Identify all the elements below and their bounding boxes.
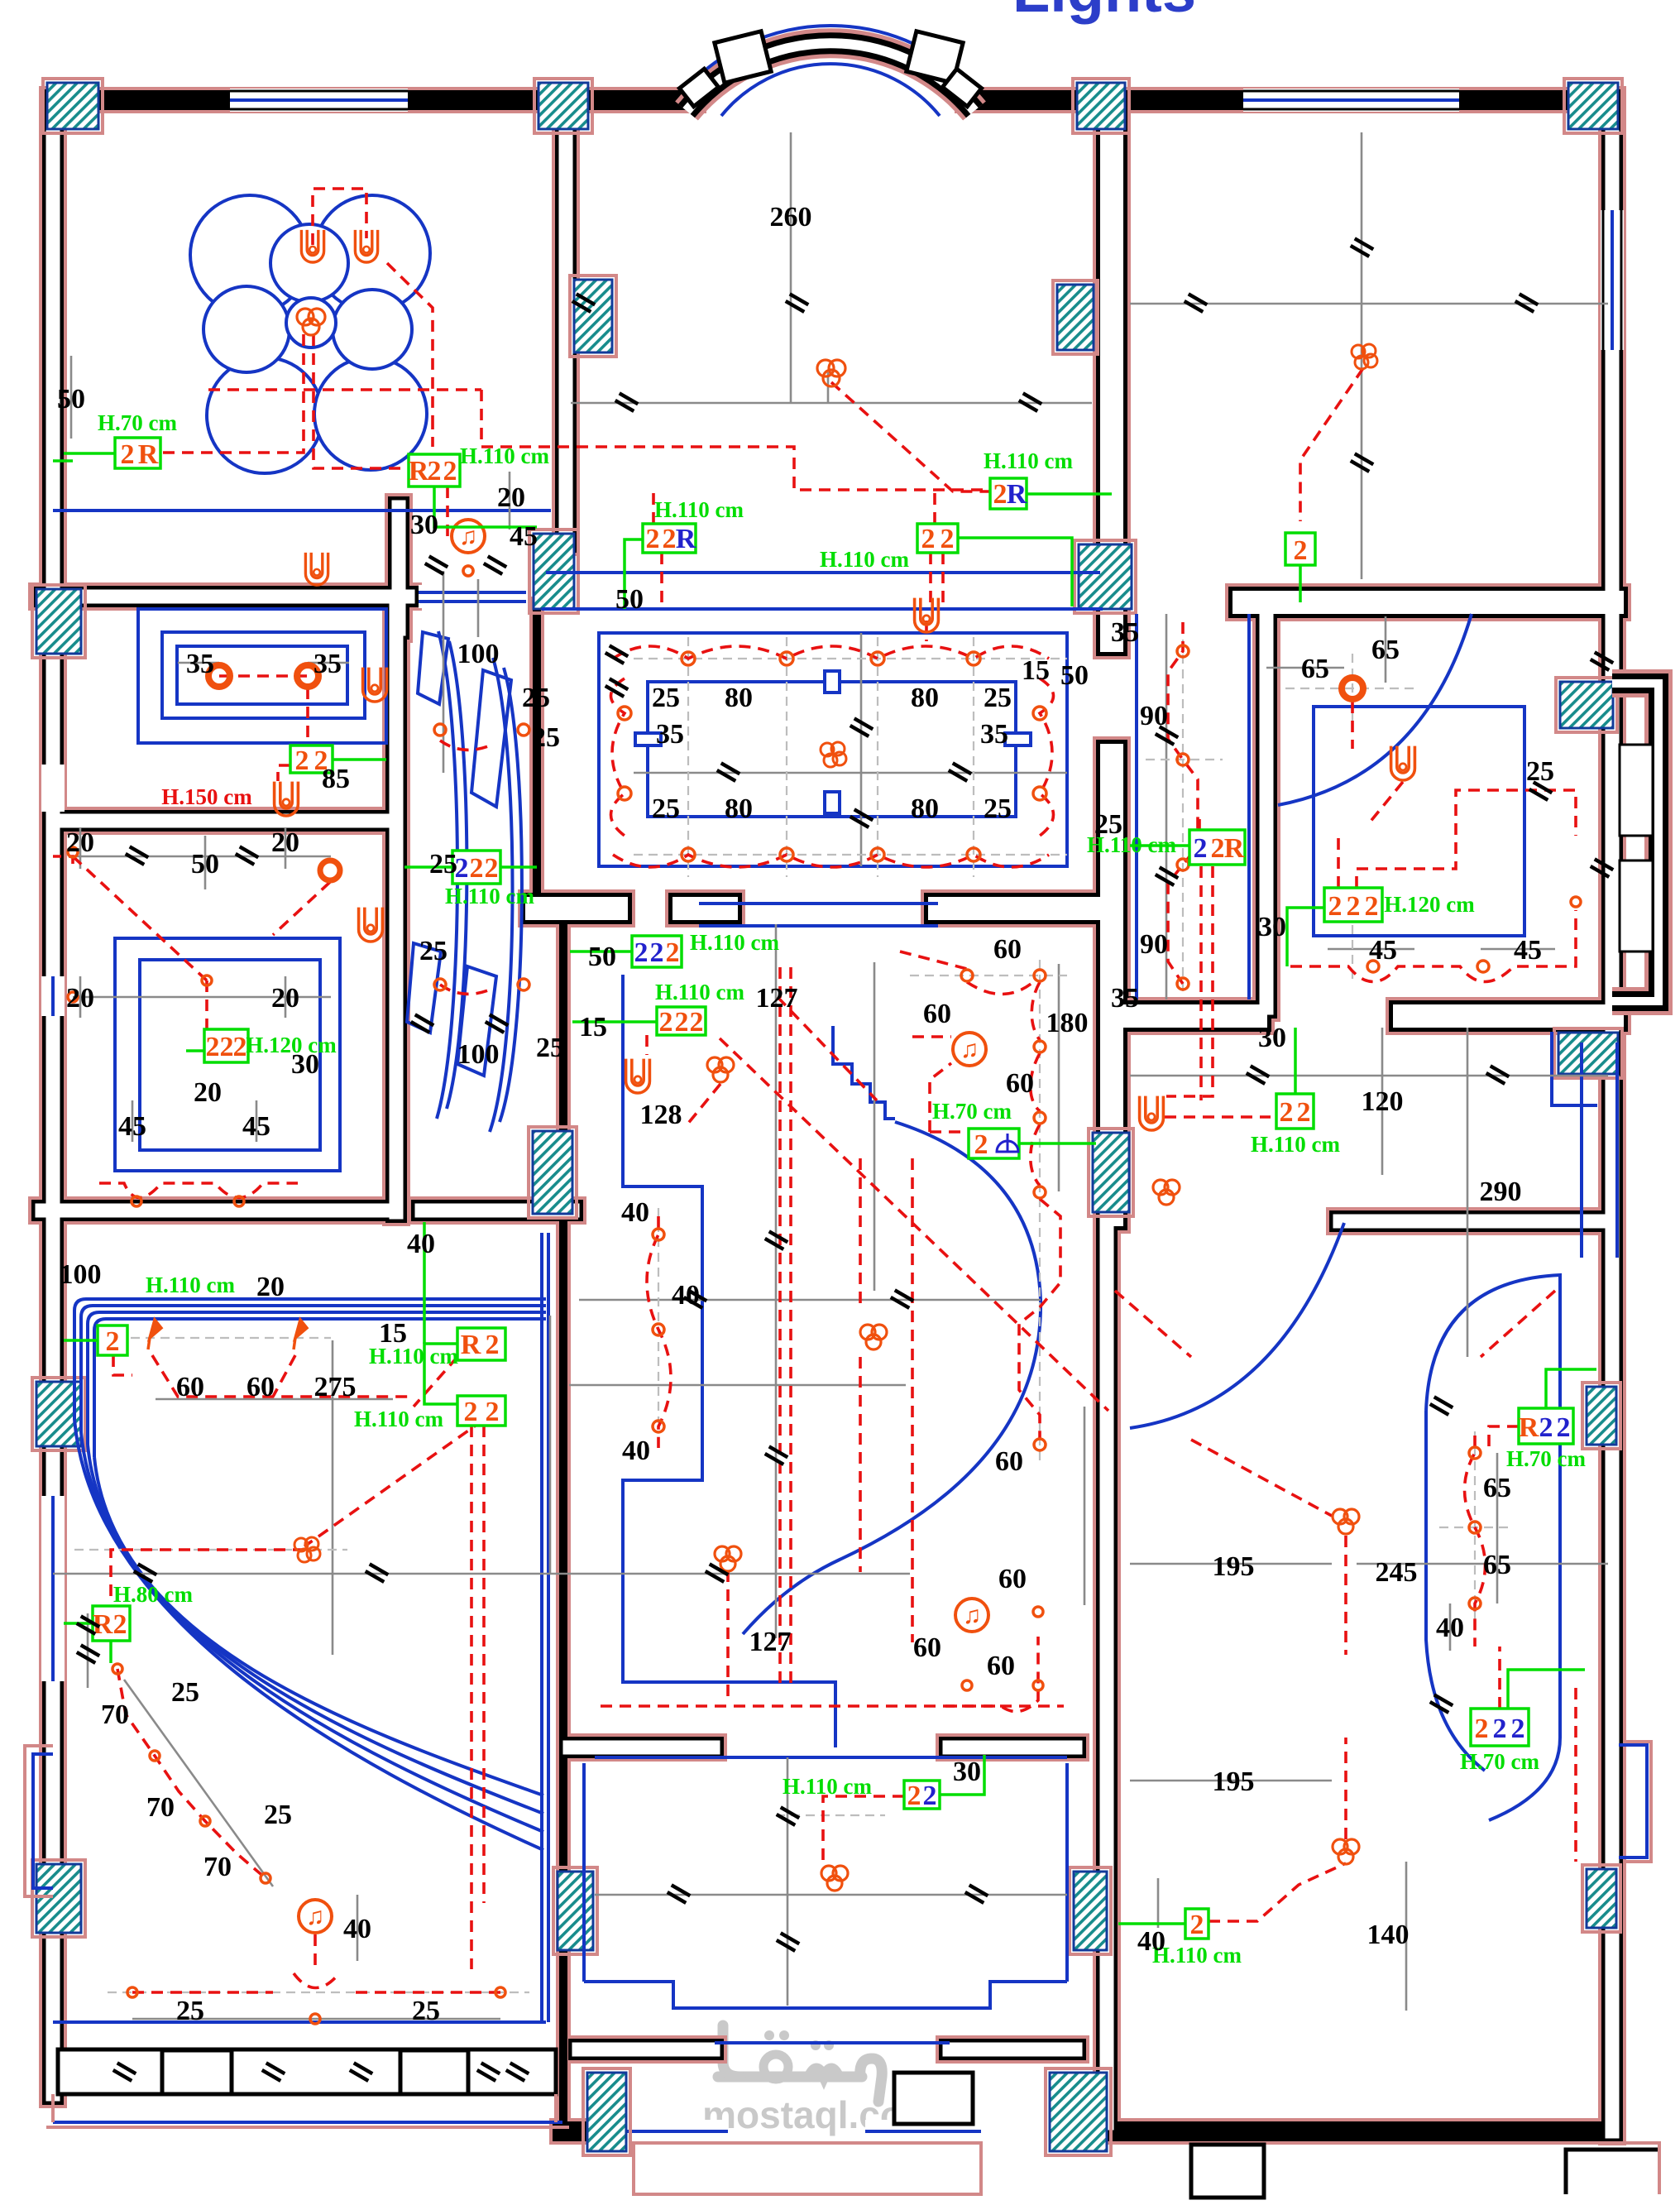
svg-text:35: 35 xyxy=(1111,983,1139,1014)
svg-text:2: 2 xyxy=(923,1781,937,1811)
svg-text:70: 70 xyxy=(203,1852,232,1882)
svg-text:2: 2 xyxy=(634,937,649,968)
svg-text:50: 50 xyxy=(191,849,219,880)
svg-text:H.80 cm: H.80 cm xyxy=(113,1582,193,1607)
svg-text:H.110 cm: H.110 cm xyxy=(783,1774,872,1799)
svg-text:140: 140 xyxy=(1367,1920,1410,1950)
svg-text:25: 25 xyxy=(1526,756,1554,787)
svg-text:R: R xyxy=(138,439,159,470)
svg-text:2: 2 xyxy=(1365,891,1379,922)
svg-text:25: 25 xyxy=(171,1677,199,1708)
svg-text:20: 20 xyxy=(66,983,94,1014)
svg-text:40: 40 xyxy=(343,1914,371,1944)
svg-text:R: R xyxy=(409,456,429,487)
svg-text:25: 25 xyxy=(412,1996,440,2026)
svg-text:85: 85 xyxy=(322,764,350,794)
svg-text:60: 60 xyxy=(1006,1068,1034,1099)
svg-text:2: 2 xyxy=(470,853,484,884)
svg-text:65: 65 xyxy=(1483,1473,1511,1503)
svg-text:30: 30 xyxy=(291,1049,319,1080)
svg-text:80: 80 xyxy=(725,793,753,824)
svg-text:25: 25 xyxy=(522,683,550,713)
svg-text:H.110 cm: H.110 cm xyxy=(654,497,744,522)
svg-text:30: 30 xyxy=(1258,1023,1286,1053)
svg-text:90: 90 xyxy=(1140,929,1168,960)
svg-text:25: 25 xyxy=(429,849,457,880)
svg-text:25: 25 xyxy=(984,683,1012,713)
svg-text:25: 25 xyxy=(264,1800,292,1830)
svg-text:70: 70 xyxy=(101,1699,129,1730)
svg-text:2: 2 xyxy=(1297,1097,1311,1128)
svg-text:2: 2 xyxy=(485,853,499,884)
svg-text:2: 2 xyxy=(1539,1412,1553,1443)
svg-text:20: 20 xyxy=(271,827,299,858)
svg-text:25: 25 xyxy=(652,793,680,824)
svg-text:15: 15 xyxy=(579,1012,607,1043)
svg-text:40: 40 xyxy=(407,1229,435,1259)
svg-text:245: 245 xyxy=(1376,1557,1418,1588)
svg-text:H.110 cm: H.110 cm xyxy=(1251,1132,1340,1157)
svg-text:40: 40 xyxy=(1137,1926,1165,1957)
svg-text:2: 2 xyxy=(659,1007,673,1038)
svg-text:80: 80 xyxy=(725,683,753,713)
svg-text:♫: ♫ xyxy=(963,1602,982,1629)
svg-text:2: 2 xyxy=(486,1330,500,1360)
svg-text:H.110 cm: H.110 cm xyxy=(690,930,779,955)
svg-text:H.110 cm: H.110 cm xyxy=(655,980,744,1004)
svg-text:♫: ♫ xyxy=(306,1903,325,1930)
svg-text:260: 260 xyxy=(770,202,812,232)
svg-text:2: 2 xyxy=(907,1781,921,1811)
svg-text:35: 35 xyxy=(314,649,342,679)
svg-text:25: 25 xyxy=(176,1996,204,2026)
svg-text:2: 2 xyxy=(646,524,660,554)
svg-text:H.110 cm: H.110 cm xyxy=(1152,1943,1242,1968)
svg-text:195: 195 xyxy=(1213,1551,1255,1582)
svg-text:35: 35 xyxy=(656,719,684,750)
svg-text:35: 35 xyxy=(980,719,1008,750)
svg-text:2: 2 xyxy=(486,1397,500,1427)
svg-text:45: 45 xyxy=(118,1111,146,1142)
svg-text:2: 2 xyxy=(1280,1097,1294,1128)
svg-text:180: 180 xyxy=(1046,1008,1089,1038)
svg-text:2: 2 xyxy=(206,1032,220,1062)
svg-text:♫: ♫ xyxy=(960,1036,979,1063)
svg-text:20: 20 xyxy=(66,827,94,858)
svg-text:15: 15 xyxy=(379,1318,407,1349)
svg-text:2: 2 xyxy=(1557,1412,1571,1443)
svg-text:25: 25 xyxy=(984,793,1012,824)
svg-text:290: 290 xyxy=(1480,1177,1522,1207)
svg-text:60: 60 xyxy=(993,934,1022,965)
svg-text:45: 45 xyxy=(510,521,538,552)
svg-text:R: R xyxy=(1224,833,1245,864)
svg-text:35: 35 xyxy=(186,649,214,679)
svg-text:H.110 cm: H.110 cm xyxy=(445,884,534,908)
svg-text:80: 80 xyxy=(911,683,939,713)
svg-text:2: 2 xyxy=(428,456,442,487)
svg-text:H.110 cm: H.110 cm xyxy=(354,1407,443,1431)
svg-text:60: 60 xyxy=(987,1651,1015,1681)
svg-text:25: 25 xyxy=(536,1033,564,1063)
svg-text:60: 60 xyxy=(246,1372,275,1402)
svg-text:35: 35 xyxy=(1111,617,1139,648)
svg-text:H.150 cm: H.150 cm xyxy=(161,784,252,809)
svg-text:H.70 cm: H.70 cm xyxy=(1460,1749,1539,1774)
svg-text:2: 2 xyxy=(1511,1714,1525,1744)
svg-text:2: 2 xyxy=(1328,891,1343,922)
svg-text:60: 60 xyxy=(176,1372,204,1402)
svg-text:2: 2 xyxy=(650,937,664,968)
svg-text:25: 25 xyxy=(1094,809,1122,840)
svg-text:80: 80 xyxy=(911,793,939,824)
svg-text:25: 25 xyxy=(419,936,448,966)
svg-text:2: 2 xyxy=(941,524,955,554)
svg-text:127: 127 xyxy=(756,983,798,1014)
svg-text:40: 40 xyxy=(1436,1613,1464,1643)
svg-text:2: 2 xyxy=(1211,833,1225,864)
svg-text:2: 2 xyxy=(1294,535,1308,566)
svg-text:20: 20 xyxy=(271,983,299,1014)
svg-text:30: 30 xyxy=(953,1757,981,1787)
svg-text:2: 2 xyxy=(121,439,135,470)
svg-text:2: 2 xyxy=(663,524,677,554)
svg-text:195: 195 xyxy=(1213,1766,1255,1797)
svg-text:45: 45 xyxy=(1369,935,1397,966)
svg-text:40: 40 xyxy=(672,1280,700,1311)
svg-text:2: 2 xyxy=(974,1129,988,1160)
svg-text:H.110 cm: H.110 cm xyxy=(460,443,549,468)
svg-text:20: 20 xyxy=(194,1077,222,1108)
svg-text:60: 60 xyxy=(998,1564,1027,1594)
svg-text:50: 50 xyxy=(57,384,85,415)
svg-text:H.120 cm: H.120 cm xyxy=(1384,892,1475,917)
svg-text:25: 25 xyxy=(532,722,560,753)
svg-text:R: R xyxy=(1519,1412,1539,1443)
svg-text:R: R xyxy=(676,524,696,554)
svg-text:65: 65 xyxy=(1301,654,1329,684)
svg-text:2: 2 xyxy=(106,1326,120,1357)
svg-text:25: 25 xyxy=(652,683,680,713)
svg-text:275: 275 xyxy=(314,1372,357,1402)
svg-text:R: R xyxy=(461,1330,481,1360)
svg-text:2: 2 xyxy=(1347,891,1361,922)
svg-text:60: 60 xyxy=(913,1632,941,1663)
svg-text:90: 90 xyxy=(1140,701,1168,731)
svg-text:45: 45 xyxy=(1514,935,1542,966)
svg-text:20: 20 xyxy=(256,1272,285,1302)
svg-text:40: 40 xyxy=(622,1436,650,1466)
svg-text:2: 2 xyxy=(1194,833,1208,864)
svg-text:Lights: Lights xyxy=(1012,0,1196,25)
svg-text:2: 2 xyxy=(1493,1714,1507,1744)
svg-text:100: 100 xyxy=(60,1259,102,1290)
svg-text:100: 100 xyxy=(457,639,500,669)
svg-text:2: 2 xyxy=(113,1609,127,1640)
svg-text:70: 70 xyxy=(146,1792,175,1823)
svg-text:2: 2 xyxy=(675,1007,689,1038)
svg-text:H.110 cm: H.110 cm xyxy=(820,547,909,572)
svg-text:H.70 cm: H.70 cm xyxy=(1506,1446,1586,1471)
svg-text:60: 60 xyxy=(995,1446,1023,1477)
svg-text:R: R xyxy=(1007,479,1027,510)
svg-text:H.110 cm: H.110 cm xyxy=(146,1273,235,1297)
svg-text:60: 60 xyxy=(923,999,951,1029)
svg-text:2: 2 xyxy=(993,479,1008,510)
svg-text:H.70 cm: H.70 cm xyxy=(932,1099,1012,1124)
svg-text:2: 2 xyxy=(921,524,936,554)
svg-text:40: 40 xyxy=(621,1197,649,1228)
svg-text:45: 45 xyxy=(242,1111,270,1142)
svg-text:2: 2 xyxy=(666,937,680,968)
svg-text:2: 2 xyxy=(1475,1714,1489,1744)
svg-text:127: 127 xyxy=(749,1627,792,1657)
svg-text:50: 50 xyxy=(1060,660,1089,691)
svg-text:30: 30 xyxy=(410,510,438,540)
svg-text:50: 50 xyxy=(588,942,616,972)
svg-text:65: 65 xyxy=(1483,1550,1511,1580)
svg-text:H.110 cm: H.110 cm xyxy=(984,448,1073,473)
svg-text:2: 2 xyxy=(443,456,457,487)
svg-text:128: 128 xyxy=(640,1100,682,1130)
svg-text:120: 120 xyxy=(1362,1086,1404,1117)
svg-text:15: 15 xyxy=(1022,655,1050,686)
svg-text:2: 2 xyxy=(464,1397,478,1427)
svg-text:30: 30 xyxy=(1258,912,1286,942)
svg-text:2: 2 xyxy=(1190,1910,1204,1940)
svg-text:65: 65 xyxy=(1371,635,1400,665)
svg-text:2: 2 xyxy=(220,1032,234,1062)
svg-text:20: 20 xyxy=(497,482,525,513)
svg-text:100: 100 xyxy=(457,1039,500,1070)
svg-text:H.70 cm: H.70 cm xyxy=(98,410,177,435)
svg-text:2: 2 xyxy=(295,745,309,776)
svg-text:50: 50 xyxy=(615,584,644,615)
svg-text:2: 2 xyxy=(690,1007,704,1038)
svg-text:2: 2 xyxy=(233,1032,247,1062)
